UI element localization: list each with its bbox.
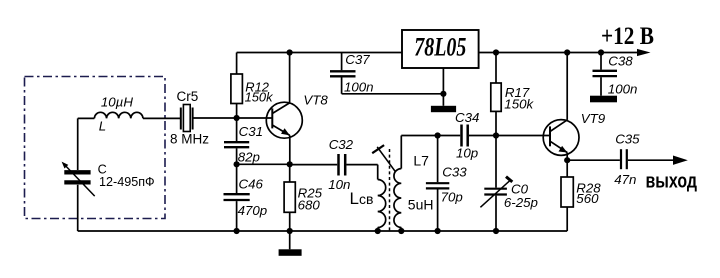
transistor VT8 (266, 53, 328, 165)
svg-text:10n: 10n (328, 177, 350, 192)
dashed selection box (tank circuit) (25, 77, 166, 219)
output arrow head (673, 156, 688, 165)
node R25 bottom (287, 228, 293, 234)
node C46 bottom (234, 228, 240, 234)
svg-text:C31: C31 (239, 124, 263, 139)
svg-text:150k: 150k (504, 97, 534, 112)
node VT9 collector on rail (564, 49, 570, 55)
resistor R28 (561, 160, 601, 231)
svg-text:L: L (99, 118, 106, 133)
svg-text:5uH: 5uH (408, 196, 434, 212)
node VT8 emitter junction (287, 161, 293, 167)
inductor Lsv (primary winding) (350, 165, 386, 231)
node C31-C46 junction (234, 161, 240, 167)
svg-text:6-25p: 6-25p (504, 195, 538, 210)
wire L7 top to C34 (401, 135, 460, 137)
node C38 top on rail (598, 49, 604, 55)
ground (C38) (590, 96, 617, 103)
node C0 bottom (493, 228, 499, 234)
svg-text:C38: C38 (608, 54, 633, 69)
svg-text:Lсв: Lсв (350, 189, 374, 208)
svg-text:680: 680 (298, 197, 321, 212)
node crystal/R12/C31 junction (234, 115, 240, 121)
capacitor C46 (224, 164, 268, 231)
wire C37 to 78L05 ground (342, 93, 444, 95)
svg-text:560: 560 (576, 191, 599, 206)
svg-text:C: C (98, 162, 107, 176)
capacitor C37 (330, 52, 374, 94)
svg-text:10p: 10p (456, 145, 478, 160)
capacitor C31 (224, 118, 263, 165)
node C37-gnd junction (440, 91, 446, 97)
crystal Cr5 8MHz (170, 89, 209, 147)
wire top rail right (+12V rail) (479, 52, 639, 54)
wire crystal to VT8 base (193, 117, 273, 119)
resistor R25 (284, 164, 322, 231)
transistor VT9 (543, 53, 606, 161)
node VT9 emitter junction (564, 157, 570, 163)
capacitor C32 (290, 137, 378, 192)
ground (78L05) (431, 106, 456, 112)
inductor L7 (secondary winding 5uH) (394, 136, 434, 232)
wire top rail left (5V rail) (237, 52, 402, 54)
svg-text:L7: L7 (413, 153, 429, 169)
svg-text:82p: 82p (238, 150, 260, 165)
svg-text:100n: 100n (608, 81, 638, 96)
svg-text:70p: 70p (441, 190, 463, 205)
capacitor C34 (455, 110, 550, 160)
+12V arrow head (637, 49, 651, 56)
capacitor C33 (426, 136, 467, 232)
regulator U1 78L05 box (402, 30, 479, 68)
svg-text:C37: C37 (345, 52, 370, 67)
capacitor C35 (614, 132, 673, 187)
resistor R17 (491, 53, 535, 136)
svg-text:VT9: VT9 (581, 111, 606, 126)
svg-text:12-495пФ: 12-495пФ (99, 175, 155, 189)
svg-text:+12 В: +12 В (601, 21, 654, 50)
svg-text:C34: C34 (455, 110, 479, 125)
capacitor C38 (593, 53, 638, 97)
svg-text:выход: выход (646, 171, 698, 193)
node Lsv bottom (375, 228, 381, 234)
svg-text:78L05: 78L05 (414, 33, 466, 62)
node R17 top on rail (493, 49, 499, 55)
variable capacitor C 12-495pF (62, 118, 155, 231)
resistor R12 (231, 53, 273, 119)
inductor L (10uH) (78, 95, 181, 134)
svg-text:10µH: 10µH (101, 95, 133, 110)
wire 78L05 ground pin (442, 68, 444, 106)
svg-text:VT8: VT8 (303, 92, 328, 107)
node C33 bottom (435, 228, 441, 234)
wire VT9 emitter to C35 (567, 159, 620, 161)
svg-text:Cr5: Cr5 (177, 89, 199, 104)
transformer adjustment arrow (372, 145, 395, 172)
wire bottom rail (78, 230, 568, 232)
svg-text:C33: C33 (442, 165, 467, 180)
node R17/C0/VT9-base junction (493, 132, 499, 138)
ground (R25 / bottom rail) (279, 231, 302, 256)
node VT8 collector on rail (287, 49, 293, 55)
svg-text:150k: 150k (245, 90, 274, 105)
node C33 top junction (435, 132, 441, 138)
variable capacitor C0 6-25p (480, 136, 538, 232)
svg-text:8 MHz: 8 MHz (170, 132, 209, 147)
svg-text:C35: C35 (615, 132, 640, 147)
wire C31/C46 node to emitter node (237, 163, 290, 165)
transformer core (dashed) (389, 149, 391, 232)
svg-text:47n: 47n (614, 172, 636, 187)
svg-text:100n: 100n (344, 79, 374, 94)
svg-text:C32: C32 (329, 137, 354, 152)
svg-text:470p: 470p (238, 203, 268, 218)
node L7 bottom (398, 228, 404, 234)
svg-text:C46: C46 (239, 177, 264, 192)
